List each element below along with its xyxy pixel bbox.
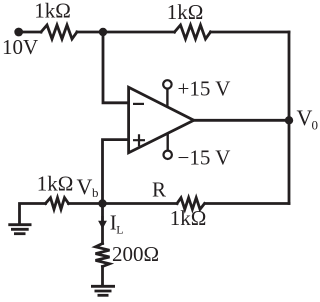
svg-text:200Ω: 200Ω [112,242,159,266]
terminal -15V circle and stem [164,133,172,159]
svg-text:1kΩ: 1kΩ [37,172,74,196]
svg-text:1kΩ: 1kΩ [34,0,71,23]
svg-text:L: L [116,223,123,237]
svg-text:−15 V: −15 V [178,146,231,170]
svg-text:10V: 10V [2,35,38,59]
svg-text:R: R [152,178,166,202]
terminal +15V circle and stem [163,80,171,107]
node Vo junction dot [285,116,293,124]
svg-text:1kΩ: 1kΩ [170,206,207,230]
resistor R1 1kOhm top-left zigzag [41,25,77,39]
wire top from source dot to resistor R1 [19,31,41,34]
wire bottom-right corner left to resistor R [205,202,289,205]
wire node Vb down to resistor 200 Ohm [101,204,104,244]
wire right side vertical top-right corner down to node Vo [288,32,291,120]
wire from resistor R to node Vb [103,202,178,205]
wire from 200 Ohm resistor to bottom ground [101,267,104,286]
svg-text:+15 V: +15 V [178,77,231,101]
ground left [8,225,31,234]
current arrow IL [101,216,103,224]
wire node Vo down to bottom-right corner [288,120,291,203]
wire from R2 to top-right corner [211,31,290,34]
svg-text:b: b [92,185,99,200]
wire from node A to resistor R2 [103,31,175,34]
resistor 200 Ohm vertical zigzag [96,244,110,267]
wire node Vb left to resistor 1kOhm bottom-left [69,202,103,205]
source terminal dot 10V [14,28,23,37]
op-amp U1 triangle [129,87,194,153]
op-amp minus input sign [133,103,144,105]
wire node Vb up to plus input corner [103,140,129,204]
resistor R2 1kOhm top-right zigzag [175,25,211,39]
resistor R 1kOhm bottom zigzag [177,198,205,210]
node A junction dot [99,28,107,36]
wire node A down to minus input corner [103,32,129,103]
wire from R1 to node A [77,31,103,34]
ground bottom [91,286,115,295]
svg-text:V: V [77,174,93,199]
svg-text:0: 0 [312,118,319,133]
resistor 1kOhm bottom-left zigzag [46,198,69,210]
wire op-amp output to node Vo [194,119,289,122]
svg-text:V: V [297,105,313,130]
wire from bottom-left resistor to left ground corner [20,204,46,224]
op-amp plus input sign [133,134,145,146]
node Vb junction dot [98,199,106,207]
svg-text:1kΩ: 1kΩ [167,0,204,24]
